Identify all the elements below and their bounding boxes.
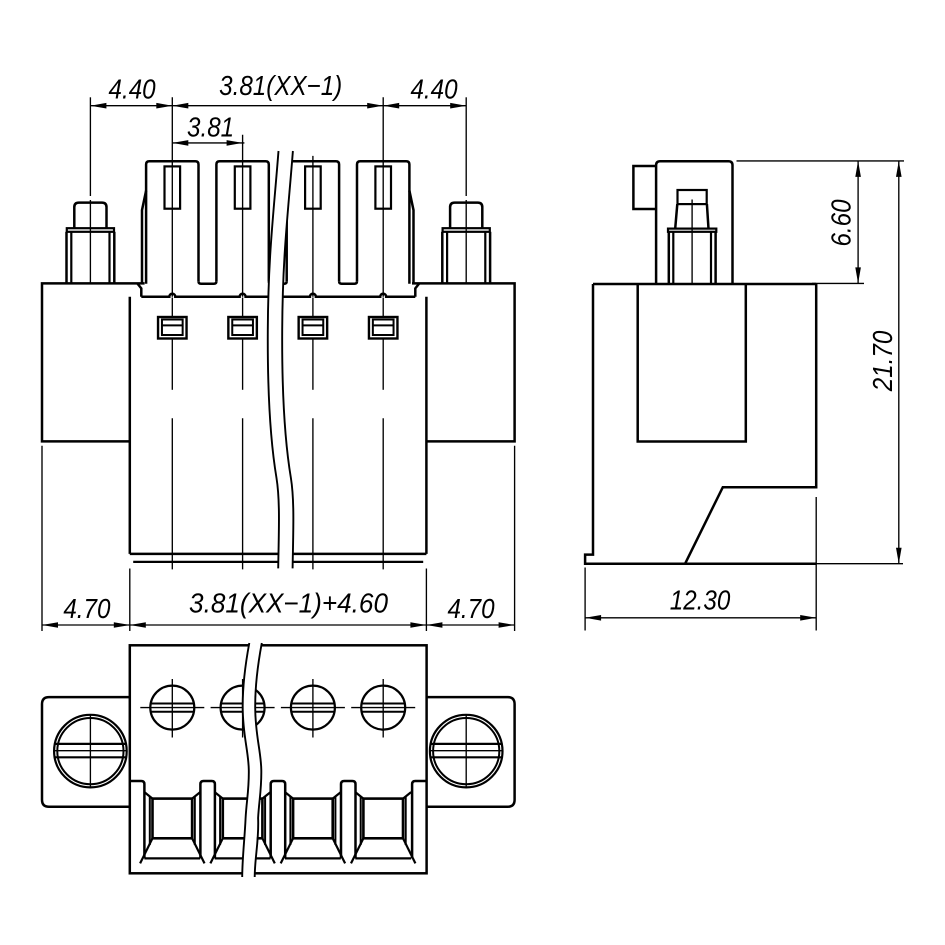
front view: right flange chamfer to body top: [415, 284, 419, 297]
svg-text:4.40: 4.40: [410, 75, 458, 105]
front view: clamp screw 4: [369, 317, 398, 339]
front view: pin 2 center/extension line: [242, 135, 244, 570]
dim 6.60: [855, 161, 861, 284]
front view: break line left: [268, 151, 279, 568]
front bottom dim extension lines: [42, 446, 515, 631]
bottom view: clamp screw head 4: [351, 679, 415, 738]
svg-text:4.70: 4.70: [447, 595, 495, 625]
front view: left flange block: [42, 283, 145, 441]
front view: contact pin 2: [235, 166, 251, 208]
dim text 4.40 left: [109, 75, 157, 105]
dim text 4.70 right: [447, 595, 495, 625]
front view: shroud outer wall right: [409, 191, 413, 284]
bottom view: wire funnel 4: [351, 792, 415, 863]
dim text 3.81: [187, 113, 234, 143]
front view: shroud tooth 2: [216, 161, 268, 281]
front view: shroud tooth 4: [357, 161, 409, 283]
bottom view: wire funnel 1: [140, 792, 204, 863]
dim text 12.30: [670, 586, 731, 616]
svg-text:4.70: 4.70: [63, 595, 111, 625]
front view: contact pin 1: [165, 166, 181, 208]
bottom view: clamp screw head 2: [211, 679, 275, 738]
dim text 4.70 left: [63, 595, 111, 625]
front view: slot bottom 3-4: [339, 281, 357, 284]
bottom view: housing outline: [130, 645, 427, 873]
front view: body left edge: [129, 297, 132, 554]
front view: clamp screw 1: [158, 317, 187, 339]
front view: slot bottom 1-2: [199, 281, 217, 284]
bottom view: wire funnel 2: [210, 792, 274, 863]
dim line 4.40 / 3.81(XX-1) / 4.40: [90, 103, 466, 109]
dim text 21.70: [869, 330, 899, 392]
front view: body bottom edge (inner rim): [133, 561, 423, 563]
bottom view: left flange screw head: [54, 715, 127, 788]
front view: body right edge: [425, 297, 428, 554]
front view: slot bottom 2-3: [269, 281, 287, 284]
dim text 6.60: [827, 199, 857, 247]
svg-text:3.81: 3.81: [187, 113, 234, 143]
front view: left flange screw: [67, 203, 115, 284]
front view: left flange chamfer to body top: [138, 284, 142, 297]
dim 21.70: [896, 161, 902, 564]
side view: mating shroud block: [656, 161, 732, 284]
bottom view: wire funnel 3: [281, 792, 345, 863]
dim text 3.81(XX-1)+4.60: [189, 588, 388, 619]
side dim extension top line: [737, 160, 905, 162]
side dim extension 6.60 bottom: [812, 282, 864, 284]
bottom view: break-out blank band: [242, 643, 262, 877]
bottom view: clamp screw head 3: [281, 679, 345, 738]
side view: bottom seating line: [685, 562, 903, 565]
svg-text:21.70: 21.70: [869, 330, 899, 392]
dim line 4.70 / 3.81(XX-1)+4.60 / 4.70: [42, 622, 515, 628]
bottom view: pillar 1-2: [200, 781, 215, 858]
side view: screw center line: [691, 200, 693, 284]
dim line 12.30: [585, 615, 816, 621]
svg-text:6.60: 6.60: [827, 199, 857, 247]
front view: body top edge with pin bumps: [141, 294, 415, 297]
front view: clamp screw 2: [228, 317, 257, 339]
side view: body top edge: [593, 283, 816, 286]
front view: contact pin 4: [375, 166, 391, 208]
front view: shroud tooth 3 (cut by break): [287, 161, 339, 281]
front view: pin 1 center/extension line: [171, 97, 173, 569]
front view: left screw center line: [89, 97, 91, 283]
front view: shroud tooth 1: [146, 161, 198, 283]
dim 12.30 extension lines: [585, 497, 816, 631]
front view: pin 3 center/extension line: [312, 156, 314, 570]
bottom view: pillar 2-3: [271, 781, 286, 858]
svg-text:3.81(XX−1): 3.81(XX−1): [219, 72, 342, 102]
front view: right flange block: [412, 283, 515, 441]
front view: contact pin 3: [305, 166, 321, 208]
front view: body bottom edge (outer): [130, 553, 427, 556]
bottom view: clamp screw head 1: [140, 679, 204, 738]
dim line 3.81: [172, 140, 244, 146]
dim text 4.40 right: [410, 75, 458, 105]
side view: flange screw: [668, 190, 716, 284]
side view: latch tab: [633, 166, 656, 209]
bottom view: left mounting ear: [42, 697, 130, 807]
svg-text:4.40: 4.40: [109, 75, 157, 105]
side view: recess pocket: [638, 284, 746, 442]
svg-text:12.30: 12.30: [670, 586, 731, 616]
svg-text:3.81(XX−1)+4.60: 3.81(XX−1)+4.60: [189, 588, 388, 619]
front view: right flange screw: [442, 203, 490, 284]
dim text 3.81(XX-1): [219, 72, 342, 102]
side view: body outline: [585, 284, 816, 564]
front view: break line right: [282, 151, 293, 568]
bottom view: break line left: [242, 643, 249, 877]
bottom view: pillar 3-4: [341, 781, 356, 858]
bottom view: end pillar left: [130, 781, 145, 858]
bottom view: break line right: [255, 643, 262, 877]
bottom view: right mounting ear: [427, 697, 515, 807]
bottom view: end pillar right: [412, 781, 427, 858]
front view: clamp screw 3: [299, 317, 328, 339]
front view: break-out blank band: [268, 151, 294, 568]
front view: pin 4 center/extension line: [382, 97, 384, 569]
bottom view: right flange screw head: [430, 715, 503, 788]
front view: shroud outer wall left: [142, 191, 146, 284]
front view: right screw center line: [465, 97, 467, 283]
